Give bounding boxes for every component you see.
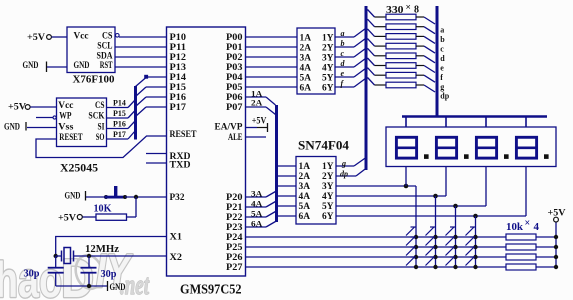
wire bus tap to P16 xyxy=(136,97,167,107)
svg-text:3Y: 3Y xyxy=(322,52,334,62)
switch S6 keypad r2c1 xyxy=(406,237,416,246)
switch S10 keypad r3c1 xyxy=(406,247,416,256)
svg-text:P02: P02 xyxy=(226,53,243,63)
svg-text:P01: P01 xyxy=(226,43,243,53)
wire junction down to resistor xyxy=(135,197,137,217)
wire P02 to inverter 1 input 3A xyxy=(246,56,298,58)
wire key to P32 with junction xyxy=(125,195,167,199)
switch S2 keypad r1c1 xyxy=(406,227,416,236)
svg-text:+5V: +5V xyxy=(252,115,267,125)
wire P07 net 2A to bus xyxy=(246,99,276,115)
wire P21 net 4A to bus xyxy=(246,199,276,208)
svg-text:GND: GND xyxy=(4,122,20,132)
switch S4 keypad r1c3 xyxy=(446,227,456,236)
svg-text:Vcc: Vcc xyxy=(74,30,89,40)
wire display common top bar xyxy=(402,115,547,127)
wire pullup common to +5V xyxy=(554,222,558,269)
node keypad junction r1c1 xyxy=(414,235,418,239)
svg-text:2A: 2A xyxy=(251,99,263,108)
resistor RN1g 330 segment g xyxy=(368,68,436,83)
svg-text:+5V: +5V xyxy=(27,33,45,43)
svg-text:X2: X2 xyxy=(170,253,183,263)
pushbutton S1 xyxy=(104,186,127,199)
wire bus tap to P17 xyxy=(136,107,167,117)
node keypad junction r4c4 xyxy=(473,265,477,269)
svg-text:5A: 5A xyxy=(300,72,312,82)
wire RXD stub xyxy=(146,153,167,155)
wire ALE stub xyxy=(246,136,267,138)
svg-text:P26: P26 xyxy=(226,253,243,263)
svg-text:P32: P32 xyxy=(170,193,185,203)
switch S5 keypad r1c4 xyxy=(466,227,476,236)
node keypad junction r1c3 xyxy=(453,235,457,239)
svg-text:30p: 30p xyxy=(101,269,117,280)
wire 3Y digit1 column xyxy=(336,184,416,267)
wire TXD stub xyxy=(146,162,167,164)
switch S3 keypad r1c2 xyxy=(426,227,436,236)
inversion bubble on X76F100 CS xyxy=(116,34,120,38)
svg-text:f: f xyxy=(440,73,443,82)
digit 1 eight figure xyxy=(396,137,416,158)
svg-text:6Y: 6Y xyxy=(322,211,334,221)
wire P24 keypad row 1 xyxy=(246,236,507,238)
wire bus to inverter 2 input 2A xyxy=(278,175,296,177)
svg-text:a: a xyxy=(440,26,444,35)
svg-text:P22: P22 xyxy=(226,213,243,223)
svg-text:e: e xyxy=(341,69,345,78)
eeprom U3 X25045 xyxy=(57,98,107,147)
svg-text:6A: 6A xyxy=(300,82,312,92)
svg-text:SDA: SDA xyxy=(97,50,113,60)
resistor RN2c 10k xyxy=(506,254,556,260)
svg-text:5Y: 5Y xyxy=(322,201,334,211)
svg-text:P27: P27 xyxy=(226,263,243,273)
svg-text:SCL: SCL xyxy=(97,40,112,50)
switch S17 keypad r4c4 xyxy=(466,257,476,266)
wire P25 keypad row 2 xyxy=(246,246,507,248)
svg-text:10K: 10K xyxy=(94,203,113,214)
wire inverter output c to segment bus xyxy=(335,49,366,59)
bus P06-P07 P20-P23 to inverter 2 xyxy=(275,105,278,222)
svg-text:c: c xyxy=(440,45,444,54)
svg-text:3A: 3A xyxy=(299,181,311,191)
svg-text:P21: P21 xyxy=(226,203,243,213)
bus P14-P17 xyxy=(134,86,137,140)
svg-text:d: d xyxy=(440,54,445,63)
svg-text:e: e xyxy=(440,64,444,73)
digit 4 eight figure xyxy=(516,137,536,158)
wire P03 to inverter 1 input 4A xyxy=(246,66,298,68)
svg-text:P11: P11 xyxy=(170,43,187,53)
node keypad junction r3c2 xyxy=(433,255,437,259)
decimal point 3 xyxy=(504,154,509,159)
wire inverter output e to segment bus xyxy=(335,69,366,79)
node keypad junction r2c1 xyxy=(414,245,418,249)
wire inverter output g to segment bus xyxy=(336,158,366,169)
svg-text:2A: 2A xyxy=(300,42,312,52)
svg-text:P24: P24 xyxy=(226,233,243,243)
wire X25045 CS net P14 xyxy=(107,99,136,108)
wire inverter output b to segment bus xyxy=(335,39,366,49)
ground GND label (X25045 Vss) xyxy=(4,122,57,132)
ground GND label (crystal) xyxy=(56,281,126,293)
svg-text:5A: 5A xyxy=(251,209,263,218)
node keypad junction r2c2 xyxy=(433,245,437,249)
resistor RN2b 10k xyxy=(506,244,556,250)
wire inverter output f to segment bus xyxy=(335,79,366,89)
wire 5Y digit3 column xyxy=(336,167,486,267)
capacitor C1 30p xyxy=(24,256,64,286)
svg-text:a: a xyxy=(341,29,345,38)
svg-text:GMS97C52: GMS97C52 xyxy=(180,282,242,297)
svg-text:P17: P17 xyxy=(113,130,126,139)
svg-text:TXD: TXD xyxy=(170,161,191,171)
decimal point 1 xyxy=(424,154,429,159)
label 10kx4 xyxy=(506,218,540,233)
switch S9 keypad r2c4 xyxy=(466,237,476,246)
node keypad junction r1c4 xyxy=(473,235,477,239)
wire bus tap to P15 xyxy=(136,87,167,97)
wire P27 keypad row 4 xyxy=(246,266,507,268)
svg-text:X1: X1 xyxy=(170,232,183,242)
node keypad junction r3c3 xyxy=(453,255,457,259)
wire P01 to inverter 1 input 2A xyxy=(246,46,298,48)
wire P26 keypad row 3 xyxy=(246,256,507,258)
resistor RN1f 330 segment f xyxy=(368,58,436,73)
wire X25045 RESET to MCU RESET xyxy=(36,136,167,158)
node X2-cap junction xyxy=(87,254,91,258)
svg-text:P05: P05 xyxy=(226,83,243,93)
svg-text:4Y: 4Y xyxy=(322,62,334,72)
node keypad junction r4c2 xyxy=(433,265,437,269)
svg-text:6Y: 6Y xyxy=(322,82,334,92)
ground GND label (key) xyxy=(65,191,106,201)
switch S13 keypad r3c4 xyxy=(466,247,476,256)
wire X25045 SI net P16 xyxy=(107,120,136,129)
mcu U1 GMS97C52 xyxy=(167,27,246,276)
svg-text:RST: RST xyxy=(100,60,113,70)
svg-text:5A: 5A xyxy=(299,201,311,211)
svg-text:GND: GND xyxy=(110,283,126,293)
bus segment signals left xyxy=(365,6,368,170)
power +5V label (X76F100 Vcc) xyxy=(27,33,67,43)
resistor RN1e 330 segment e xyxy=(368,48,436,63)
svg-text:12MHz: 12MHz xyxy=(85,244,119,255)
wire P20 net 3A to bus xyxy=(246,189,276,198)
node keypad junction r3c4 xyxy=(473,255,477,259)
svg-text:4Y: 4Y xyxy=(322,191,334,201)
svg-text:SO: SO xyxy=(96,132,105,142)
wire bus to inverter 2 input 5A xyxy=(278,205,296,207)
svg-text:1Y: 1Y xyxy=(322,161,334,171)
wire P04 to inverter 1 input 5A xyxy=(246,76,298,78)
wire WP stub with bubble xyxy=(36,116,56,119)
power +5V label (pullups) xyxy=(548,209,566,223)
node keypad junction r1c2 xyxy=(433,235,437,239)
eeprom U2 X76F100 xyxy=(67,27,115,73)
resistor RN1a 330 segment a xyxy=(368,10,436,25)
wire 4Y digit2 column xyxy=(336,167,446,267)
svg-text:1A: 1A xyxy=(300,32,312,42)
svg-text:6A: 6A xyxy=(299,211,311,221)
svg-text:Vss: Vss xyxy=(58,121,74,131)
power +5V tap on EA/VP xyxy=(246,115,268,132)
svg-text:4A: 4A xyxy=(299,191,311,201)
svg-text:RESET: RESET xyxy=(59,132,82,142)
svg-text:ALE: ALE xyxy=(228,133,243,143)
decimal point 4 xyxy=(544,154,549,159)
svg-text:GND: GND xyxy=(65,191,81,201)
node keypad junction r3c1 xyxy=(414,255,418,259)
wire X76F100 RST to P13 xyxy=(115,66,167,68)
svg-text:P12: P12 xyxy=(170,53,187,63)
switch S7 keypad r2c2 xyxy=(426,237,436,246)
svg-text:SCK: SCK xyxy=(88,111,104,121)
svg-text:10k: 10k xyxy=(506,221,524,233)
svg-text:P25: P25 xyxy=(226,243,243,253)
svg-text:6A: 6A xyxy=(251,219,263,228)
wire 6Y digit4 column xyxy=(336,167,526,267)
svg-text:SI: SI xyxy=(98,121,105,131)
svg-text:GND: GND xyxy=(74,60,90,70)
wire X1 net xyxy=(56,237,167,255)
resistor RN2a 10k xyxy=(506,234,556,240)
svg-text:P00: P00 xyxy=(226,33,243,43)
svg-text:×: × xyxy=(406,3,411,13)
wire X76F100 CS to P10 xyxy=(119,36,167,38)
resistor RN1h 330 segment dp xyxy=(368,78,436,93)
svg-text:dp: dp xyxy=(440,92,449,101)
wire display digit1 drop xyxy=(405,167,407,186)
svg-text:GND: GND xyxy=(23,61,39,71)
svg-text:EA/VP: EA/VP xyxy=(215,123,243,133)
wire inverter output dp to segment bus xyxy=(336,168,367,178)
svg-text:b: b xyxy=(341,39,345,48)
wire X25045 SCK net P15 xyxy=(107,109,136,118)
svg-text:P23: P23 xyxy=(226,223,243,233)
svg-text:2A: 2A xyxy=(299,171,311,181)
svg-text:3Y: 3Y xyxy=(322,181,334,191)
hex inverter U4A-F SN74F04 (segments) xyxy=(297,28,335,94)
svg-text:5Y: 5Y xyxy=(322,72,334,82)
wire P23 net 6A to bus xyxy=(246,219,276,228)
resistor RN1d 330 segment d xyxy=(368,39,436,54)
switch S16 keypad r4c3 xyxy=(446,257,456,266)
label 330x8 xyxy=(386,3,419,16)
hex inverter U5A-F SN74F04 (digits) xyxy=(296,157,336,225)
svg-text:g: g xyxy=(341,159,346,168)
svg-text:P16: P16 xyxy=(170,93,187,103)
watermark haoDIY.net xyxy=(0,244,150,300)
wire X2 net xyxy=(74,255,167,257)
wire X25045 SO net P17 xyxy=(107,130,136,139)
switch S15 keypad r4c2 xyxy=(426,257,436,266)
node keypad junction r2c4 xyxy=(473,245,477,249)
svg-text:1Y: 1Y xyxy=(322,32,334,42)
resistor R1 10K pullup xyxy=(58,203,136,223)
svg-text:c: c xyxy=(341,49,345,58)
display DS1 4-digit 7-segment xyxy=(386,127,556,167)
svg-text:X25045: X25045 xyxy=(60,161,98,175)
wire bus to inverter 2 input 3A xyxy=(278,185,296,187)
switch S12 keypad r3c3 xyxy=(446,247,456,256)
digit 2 eight figure xyxy=(436,137,456,158)
svg-text:P15: P15 xyxy=(113,109,126,118)
svg-text:P10: P10 xyxy=(170,33,187,43)
wire inverter output a to segment bus xyxy=(335,29,366,39)
svg-text:X76F100: X76F100 xyxy=(73,74,115,86)
switch S11 keypad r3c2 xyxy=(426,247,436,256)
capacitor C2 30p xyxy=(81,256,117,286)
svg-text:Vcc: Vcc xyxy=(58,100,73,110)
svg-text:4A: 4A xyxy=(300,62,312,72)
svg-text:P13: P13 xyxy=(170,63,187,73)
switch S14 keypad r4c1 xyxy=(406,257,416,266)
svg-text:P14: P14 xyxy=(113,99,126,108)
svg-text:P15: P15 xyxy=(170,83,187,93)
node keypad junction r2c3 xyxy=(453,245,457,249)
wire X76F100 SCL to P11 xyxy=(115,46,167,48)
svg-text:P03: P03 xyxy=(226,63,243,73)
svg-text:P07: P07 xyxy=(226,103,243,113)
power +5V label (X25045 Vcc) xyxy=(8,103,57,113)
wire X76F100 SDA to P12 xyxy=(115,56,167,58)
svg-text:CS: CS xyxy=(102,30,113,40)
svg-text:+5V: +5V xyxy=(58,214,76,224)
node keypad junction r4c3 xyxy=(453,265,457,269)
svg-text:4: 4 xyxy=(534,221,540,233)
node X1-crystal junction xyxy=(54,254,58,258)
svg-text:WP: WP xyxy=(59,111,72,121)
wire bus tap to P14 with junction xyxy=(136,75,167,87)
resistor RN1c 330 segment c xyxy=(368,29,436,44)
svg-text:2Y: 2Y xyxy=(322,171,334,181)
wire P05 to inverter 1 input 6A xyxy=(246,86,298,88)
svg-text:4A: 4A xyxy=(251,199,263,208)
svg-text:30p: 30p xyxy=(24,269,40,280)
svg-text:P16: P16 xyxy=(113,120,126,129)
decimal point 2 xyxy=(464,154,469,159)
svg-text:SN74F04: SN74F04 xyxy=(298,138,350,152)
wire bus to inverter 2 input 1A xyxy=(278,165,296,167)
svg-text:1A: 1A xyxy=(251,90,263,99)
svg-text:b: b xyxy=(440,35,445,44)
svg-text:RESET: RESET xyxy=(170,130,198,140)
svg-text:×: × xyxy=(525,218,531,229)
digit 3 eight figure xyxy=(476,137,496,158)
svg-text:CS: CS xyxy=(95,100,105,110)
svg-text:P20: P20 xyxy=(226,193,243,203)
node keypad junction r4c1 xyxy=(414,265,418,269)
wire bus to inverter 2 input 4A xyxy=(278,195,296,197)
svg-text:3A: 3A xyxy=(300,52,312,62)
crystal Y1 12MHz xyxy=(56,244,120,264)
svg-text:P14: P14 xyxy=(170,73,187,83)
wire P06 net 1A to bus xyxy=(246,90,276,106)
svg-text:P06: P06 xyxy=(226,93,243,103)
resistor RN1b 330 segment b xyxy=(368,19,436,34)
resistor RN2d 10k xyxy=(506,264,556,270)
wire P22 net 5A to bus xyxy=(246,209,276,218)
wire P00 to inverter 1 input 1A xyxy=(246,36,298,38)
bus segment signals right xyxy=(436,6,439,116)
svg-text:P04: P04 xyxy=(226,73,243,83)
svg-text:3A: 3A xyxy=(251,189,263,198)
ground GND label (X76F100 GND) xyxy=(23,61,68,72)
svg-text:P17: P17 xyxy=(170,103,187,113)
svg-text:+5V: +5V xyxy=(8,103,26,113)
svg-text:g: g xyxy=(440,83,444,92)
svg-text:dp: dp xyxy=(340,169,348,178)
svg-text:1A: 1A xyxy=(299,161,311,171)
wire bus to inverter 2 input 6A xyxy=(278,215,296,217)
wire inverter output d to segment bus xyxy=(335,59,366,69)
switch S8 keypad r2c3 xyxy=(446,237,456,246)
svg-text:2Y: 2Y xyxy=(322,42,334,52)
